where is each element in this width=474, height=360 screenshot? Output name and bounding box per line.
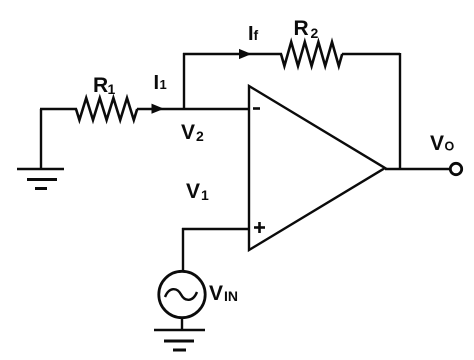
svg-text:R: R xyxy=(294,17,309,40)
svg-text:I: I xyxy=(154,72,160,94)
svg-text:1: 1 xyxy=(201,187,209,203)
wire xyxy=(40,108,77,110)
ground xyxy=(154,330,205,350)
wire xyxy=(182,228,249,271)
wire xyxy=(385,168,450,170)
svg-text:V: V xyxy=(430,132,444,155)
resistor R2 xyxy=(281,42,342,66)
node V1 label xyxy=(186,180,209,203)
node V2 label xyxy=(181,121,204,144)
svg-text:V: V xyxy=(181,121,195,144)
op-amp U1 xyxy=(249,86,385,250)
label R1 xyxy=(93,74,116,97)
plus input pin xyxy=(254,222,265,233)
svg-text:2: 2 xyxy=(311,25,319,41)
svg-text:V: V xyxy=(186,180,200,203)
label VO xyxy=(430,132,455,155)
minus input pin xyxy=(253,107,260,110)
label VIN xyxy=(209,282,238,305)
output terminal xyxy=(450,163,461,174)
current arrow If xyxy=(239,49,252,59)
wire xyxy=(342,53,400,169)
svg-text:V: V xyxy=(209,282,223,305)
source VIN xyxy=(159,271,205,317)
ground xyxy=(17,109,64,189)
label If xyxy=(248,23,259,45)
wire xyxy=(181,317,183,330)
label R2 xyxy=(294,17,319,41)
svg-text:2: 2 xyxy=(196,128,204,144)
wire xyxy=(183,53,282,109)
current arrow I1 xyxy=(152,104,165,114)
svg-text:1: 1 xyxy=(108,81,116,97)
svg-text:IN: IN xyxy=(224,288,238,304)
wire xyxy=(137,108,249,110)
svg-text:1: 1 xyxy=(160,77,167,92)
svg-text:R: R xyxy=(93,74,108,97)
svg-text:O: O xyxy=(445,140,455,154)
label I1 xyxy=(154,72,167,94)
svg-text:f: f xyxy=(254,27,259,43)
resistor R1 xyxy=(76,98,137,120)
